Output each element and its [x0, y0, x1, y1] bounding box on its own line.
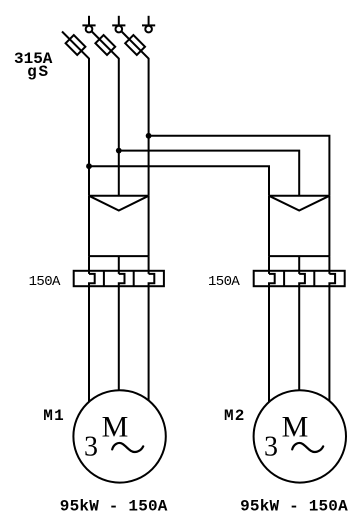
svg-text:M: M	[102, 410, 129, 443]
svg-text:3: 3	[264, 431, 278, 462]
svg-text:gS: gS	[27, 63, 50, 81]
svg-text:95kW - 150A: 95kW - 150A	[240, 497, 348, 515]
svg-text:M1: M1	[43, 407, 65, 425]
svg-text:150A: 150A	[29, 274, 61, 290]
svg-text:M2: M2	[224, 407, 246, 425]
svg-text:M: M	[282, 410, 309, 443]
svg-text:150A: 150A	[208, 274, 240, 290]
svg-text:3: 3	[84, 431, 98, 462]
svg-text:95kW - 150A: 95kW - 150A	[60, 497, 168, 515]
